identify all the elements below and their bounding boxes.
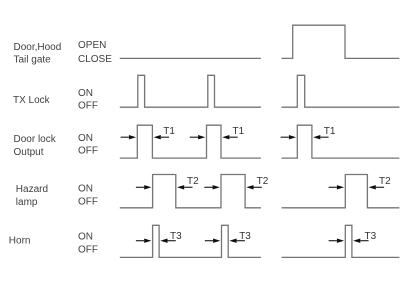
svg-text:CLOSE: CLOSE (78, 54, 112, 65)
svg-text:T1: T1 (233, 126, 245, 137)
svg-text:T2: T2 (257, 176, 269, 187)
svg-text:OFF: OFF (78, 197, 98, 208)
svg-text:OFF: OFF (78, 146, 98, 157)
svg-text:Output: Output (14, 147, 44, 158)
svg-text:Horn: Horn (9, 236, 31, 247)
svg-text:T3: T3 (365, 231, 377, 242)
svg-text:Door,Hood: Door,Hood (14, 42, 62, 53)
svg-text:Door lock: Door lock (14, 134, 57, 145)
svg-text:ON: ON (78, 133, 93, 144)
svg-text:T3: T3 (170, 231, 182, 242)
svg-text:Tail gate: Tail gate (14, 55, 52, 66)
svg-text:ON: ON (78, 88, 93, 99)
svg-text:Hazard: Hazard (16, 184, 48, 195)
svg-text:T3: T3 (239, 231, 251, 242)
svg-text:T1: T1 (324, 126, 336, 137)
svg-text:ON: ON (78, 231, 93, 242)
svg-text:ON: ON (78, 184, 93, 195)
svg-text:T2: T2 (187, 176, 199, 187)
svg-text:OPEN: OPEN (78, 40, 106, 51)
svg-text:TX Lock: TX Lock (13, 95, 51, 106)
svg-text:lamp: lamp (16, 197, 38, 208)
svg-text:OFF: OFF (78, 245, 98, 256)
svg-text:OFF: OFF (78, 101, 98, 112)
svg-text:T2: T2 (379, 176, 391, 187)
svg-text:T1: T1 (163, 126, 175, 137)
